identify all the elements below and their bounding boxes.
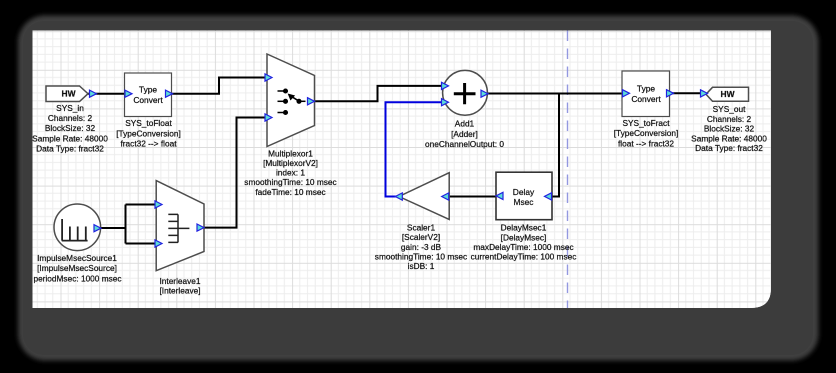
svg-text:[Adder]: [Adder] [451, 129, 478, 139]
pin Interleave1 input2 [155, 240, 162, 247]
svg-text:BlockSize: 32: BlockSize: 32 [45, 123, 96, 133]
svg-text:Msec: Msec [513, 197, 533, 207]
label SYS_out [691, 104, 767, 153]
pin DelayMsec1 output (left side) [496, 192, 503, 199]
svg-text:[TypeConversion]: [TypeConversion] [116, 128, 181, 138]
icon Interleave1 comb [168, 214, 189, 242]
label SYS_toFract [614, 118, 679, 149]
svg-text:SYS_toFloat: SYS_toFloat [125, 118, 172, 128]
label SYS_toFloat [116, 118, 181, 149]
svg-text:maxDelayTime: 1000 msec: maxDelayTime: 1000 msec [473, 242, 573, 252]
pin Add1 input1 [442, 82, 449, 89]
wire ImpulseMsecSource1 to Interleave1 both pins [100, 205, 158, 244]
svg-text:Multiplexor1: Multiplexor1 [268, 148, 313, 158]
block SYS_in (HW input marker) [46, 86, 88, 102]
svg-text:Sample Rate: 48000: Sample Rate: 48000 [691, 133, 767, 143]
pin Multiplexor1 input1 [265, 74, 272, 81]
svg-text:Channels: 2: Channels: 2 [48, 113, 93, 123]
svg-text:fract32 --> float: fract32 --> float [120, 139, 177, 149]
block ImpulseMsecSource1 circle [54, 204, 101, 251]
wire SYS_toFloat to Multiplexor1 pin1 [171, 78, 265, 94]
icon Multiplexor1 switch [278, 89, 306, 114]
svg-text:[TypeConversion]: [TypeConversion] [614, 128, 679, 138]
pin Scaler1 output [395, 193, 402, 200]
block Scaler1 triangle [399, 173, 449, 220]
pin Multiplexor1 input2 [265, 114, 272, 121]
svg-text:Data Type: fract32: Data Type: fract32 [695, 143, 763, 153]
wire Interleave1 to Multiplexor1 pin2 [203, 118, 265, 228]
svg-text:Scaler1: Scaler1 [407, 223, 436, 233]
svg-text:SYS_out: SYS_out [713, 104, 746, 114]
svg-text:[ScalerV2]: [ScalerV2] [402, 232, 440, 242]
svg-text:BlockSize: 32: BlockSize: 32 [704, 124, 755, 134]
pin Add1 output [481, 90, 488, 97]
wire SYS_toFract to HW SYS_out [671, 92, 702, 94]
svg-text:smoothingTime: 10 msec: smoothingTime: 10 msec [375, 252, 467, 262]
wire HW SYS_in to SYS_toFloat [88, 93, 126, 95]
pin DelayMsec1 input (right side) [545, 193, 552, 200]
svg-text:Convert: Convert [133, 95, 163, 105]
svg-text:Type: Type [139, 85, 157, 95]
block Add1 (adder circle) [443, 70, 488, 115]
svg-text:[DelayMsec]: [DelayMsec] [501, 232, 547, 242]
svg-text:ImpulseMsecSource1: ImpulseMsecSource1 [37, 253, 117, 263]
block SYS_toFract (Type Convert) [622, 71, 670, 117]
block SYS_out (HW output marker) [706, 87, 749, 101]
pin SYS_in output [90, 90, 97, 97]
svg-text:DelayMsec1: DelayMsec1 [501, 223, 547, 233]
svg-text:currentDelayTime: 100 msec: currentDelayTime: 100 msec [471, 252, 577, 262]
pin SYS_toFract output [667, 90, 674, 97]
svg-text:HW: HW [62, 89, 76, 99]
svg-text:[MultiplexorV2]: [MultiplexorV2] [263, 158, 318, 168]
label Add1 [425, 119, 504, 150]
svg-text:[Interleave]: [Interleave] [159, 286, 200, 296]
icon ImpulseMsecSource1 impulse train [62, 219, 88, 241]
svg-text:Type: Type [637, 84, 655, 94]
label DelayMsec1 [471, 223, 577, 262]
svg-text:SYS_in: SYS_in [56, 103, 84, 113]
svg-text:periodMsec: 1000 msec: periodMsec: 1000 msec [33, 273, 121, 283]
label ImpulseMsecSource1 [33, 253, 121, 283]
pin SYS_out input [701, 90, 708, 97]
canvas white grid background [33, 31, 772, 309]
pin Multiplexor1 output [308, 98, 315, 105]
guide dashed line [567, 31, 569, 309]
pin Scaler1 input [442, 193, 449, 200]
svg-text:HW: HW [721, 89, 735, 99]
block Interleave1 trapezoid [156, 181, 204, 271]
block DelayMsec1 [496, 172, 552, 220]
block SYS_toFloat (Type Convert) [125, 73, 172, 117]
pin ImpulseMsecSource1 output [94, 225, 101, 232]
svg-text:Sample Rate: 48000: Sample Rate: 48000 [32, 133, 108, 143]
wire Scaler1 output to Add1 pin2 (blue) [386, 102, 444, 196]
svg-text:[ImpulseMsecSource]: [ImpulseMsecSource] [37, 263, 117, 273]
block Multiplexor1 trapezoid [267, 54, 315, 147]
label Scaler1 [375, 223, 467, 272]
label SYS_in [32, 103, 108, 154]
svg-text:Data Type: fract32: Data Type: fract32 [36, 144, 104, 154]
wire DelayMsec1 output to Scaler1 input [448, 196, 497, 198]
svg-text:smoothingTime: 10 msec: smoothingTime: 10 msec [244, 177, 336, 187]
svg-text:gain: -3 dB: gain: -3 dB [401, 242, 442, 252]
svg-text:Interleave1: Interleave1 [159, 276, 200, 286]
pin SYS_toFloat output [166, 90, 173, 97]
svg-text:Delay: Delay [513, 187, 535, 197]
svg-text:oneChannelOutput: 0: oneChannelOutput: 0 [425, 139, 504, 149]
pin Add1 input2 [442, 99, 449, 106]
svg-text:float --> fract32: float --> fract32 [618, 139, 674, 149]
label Multiplexor1 [244, 148, 336, 196]
svg-text:isDB: 1: isDB: 1 [408, 261, 435, 271]
svg-text:fadeTime: 10 msec: fadeTime: 10 msec [255, 187, 325, 197]
pin Interleave1 output [197, 224, 204, 231]
svg-text:index: 1: index: 1 [276, 168, 305, 178]
svg-text:Convert: Convert [631, 94, 661, 104]
svg-text:Add1: Add1 [455, 119, 475, 129]
wire Add1 to SYS_toFract [486, 93, 623, 95]
pin SYS_toFract input [623, 90, 630, 97]
svg-text:Channels: 2: Channels: 2 [707, 114, 752, 124]
pin SYS_toFloat input [125, 90, 132, 97]
pin Interleave1 input1 [155, 201, 162, 208]
svg-text:SYS_toFract: SYS_toFract [622, 118, 670, 128]
wire junction branch down to DelayMsec1 input [550, 94, 559, 197]
icon Add1 plus [454, 83, 476, 104]
label Interleave1 [159, 276, 200, 296]
wire Multiplexor1 to Add1 pin1 [315, 86, 445, 101]
